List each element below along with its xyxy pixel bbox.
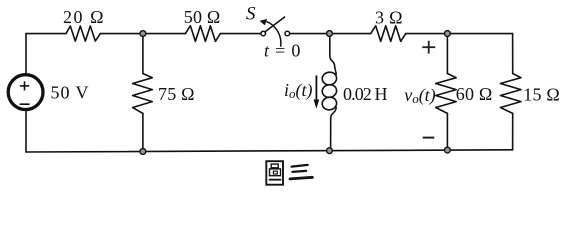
resistor R 50ohm [185, 26, 220, 42]
svg-text:vo(t): vo(t) [404, 85, 436, 106]
wire 50ohm to switch [220, 33, 260, 35]
svg-text:50 Ω: 50 Ω [184, 7, 221, 27]
svg-text:75 Ω: 75 Ω [158, 84, 195, 104]
resistor R 75ohm [133, 74, 153, 114]
caption figure-three character tu [266, 161, 283, 185]
wire node A down to 75ohm [142, 34, 144, 74]
switch blade [265, 17, 285, 32]
switch motion arc [266, 21, 280, 46]
wire 60ohm to bottom rail [446, 113, 448, 150]
wire node B to 3ohm [330, 33, 371, 35]
wire right vertical upper [512, 34, 514, 74]
node A bottom [140, 149, 146, 155]
wire 15ohm to bottom rail [512, 113, 514, 149]
svg-text:20 Ω: 20 Ω [63, 7, 104, 27]
svg-text:0.02 H: 0.02 H [343, 84, 388, 104]
wire node C down to 60ohm [446, 34, 448, 74]
wire 75ohm to bottom rail [142, 113, 144, 151]
caption figure-three character three [290, 165, 312, 179]
node B bottom [327, 148, 333, 154]
label minus vo [423, 137, 435, 139]
resistor R 3ohm [371, 26, 406, 42]
node C bottom [445, 147, 451, 153]
wire 3ohm to node C [406, 33, 448, 35]
node A top [140, 31, 146, 37]
svg-text:60 Ω: 60 Ω [456, 84, 493, 104]
resistor R 60ohm [436, 74, 457, 114]
svg-text:t = 0: t = 0 [264, 41, 301, 61]
wire 20ohm to node A [100, 33, 143, 35]
wire node A to 50ohm [143, 33, 186, 35]
wire bottom rail [26, 150, 513, 152]
resistor R 20ohm [66, 26, 100, 41]
arrow io(t) [315, 75, 317, 102]
svg-text:50 V: 50 V [51, 83, 89, 103]
wire top rail left [26, 33, 66, 35]
svg-text:S: S [246, 4, 256, 25]
svg-text:3 Ω: 3 Ω [375, 7, 403, 27]
node C top [445, 31, 451, 37]
label plus vo [422, 41, 435, 54]
inductor L 0.02H [330, 34, 336, 75]
resistor R 15ohm [500, 74, 521, 114]
node B top [327, 31, 333, 37]
svg-text:15 Ω: 15 Ω [523, 84, 560, 104]
svg-text:io(t): io(t) [284, 80, 313, 101]
voltage source V1 50V [8, 75, 43, 110]
wire switch to node B [290, 33, 330, 35]
wire left vertical upper [25, 34, 27, 74]
wire node C to top right corner [447, 33, 512, 35]
switch S [261, 31, 266, 36]
wire left vertical lower [25, 111, 27, 152]
